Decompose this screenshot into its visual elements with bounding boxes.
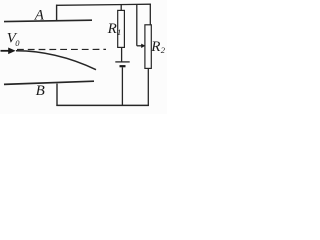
svg-text:1: 1 [117,27,121,37]
svg-text:R: R [107,21,117,37]
svg-text:A: A [34,7,45,23]
wire [56,104,148,106]
svg-text:2: 2 [161,45,166,55]
wiper arrow [137,45,142,47]
wire [121,47,123,61]
wire [56,84,58,106]
resistor R2 [145,25,151,69]
arrow particle [1,50,10,52]
plate B [4,81,94,84]
plate A [4,20,92,21]
battery plus plate [115,61,129,63]
wire [56,4,151,5]
svg-text:B: B [36,83,45,99]
wire [149,4,151,25]
dashed axis [17,48,106,50]
svg-text:R: R [150,39,160,55]
wire [56,5,58,22]
battery minus plate [120,65,126,67]
wire [121,67,123,106]
svg-text:0: 0 [15,38,20,48]
trajectory curve [16,51,96,70]
resistor R1 [118,10,125,47]
wiper wire [136,4,138,45]
wire [120,4,122,10]
wire [147,68,149,106]
